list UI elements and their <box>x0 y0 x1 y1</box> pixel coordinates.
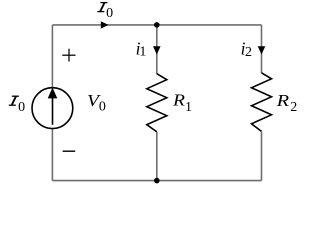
wire middle branch lower (R1 to bottom node) <box>156 132 158 181</box>
plus sign (source polarity) <box>62 49 75 62</box>
wire left upper (top corner to source top) <box>51 25 53 88</box>
label I0 (top wire current) <box>97 3 113 21</box>
wire left lower (source bottom to bottom corner) <box>51 128 53 180</box>
svg-text:R: R <box>275 91 289 110</box>
wire right branch lower (R2 to bottom right corner) <box>261 131 263 180</box>
current source I0 (circle with upward arrow) <box>32 88 73 129</box>
node top junction <box>154 22 160 28</box>
label R1 <box>172 91 192 115</box>
label I0 (source value) <box>9 96 25 115</box>
resistor R1 zigzag <box>147 74 167 132</box>
minus sign (source polarity) <box>63 150 76 152</box>
arrow i1 on middle branch (pointing down) <box>153 46 161 54</box>
label i2 (branch current) <box>241 39 252 60</box>
arrow I0 on top wire (pointing right) <box>101 21 109 28</box>
svg-text:0: 0 <box>99 100 106 115</box>
resistor R2 zigzag <box>252 73 272 132</box>
svg-text:R: R <box>172 91 185 110</box>
wire right branch upper (top right corner to R2) <box>261 25 263 73</box>
svg-text:0: 0 <box>106 6 113 21</box>
label V0 (source voltage) <box>87 91 106 115</box>
label R2 <box>275 91 297 115</box>
node bottom junction <box>154 178 160 184</box>
svg-text:1: 1 <box>139 45 146 60</box>
wire top horizontal <box>52 24 261 26</box>
wire middle branch upper (top node to R1) <box>156 25 158 74</box>
svg-text:1: 1 <box>185 100 192 115</box>
svg-text:2: 2 <box>245 45 252 60</box>
arrow i2 on right branch (pointing down) <box>258 46 266 54</box>
svg-text:0: 0 <box>18 100 25 115</box>
label i1 (branch current) <box>136 39 147 60</box>
wire bottom horizontal <box>52 180 261 182</box>
svg-text:2: 2 <box>290 100 297 115</box>
